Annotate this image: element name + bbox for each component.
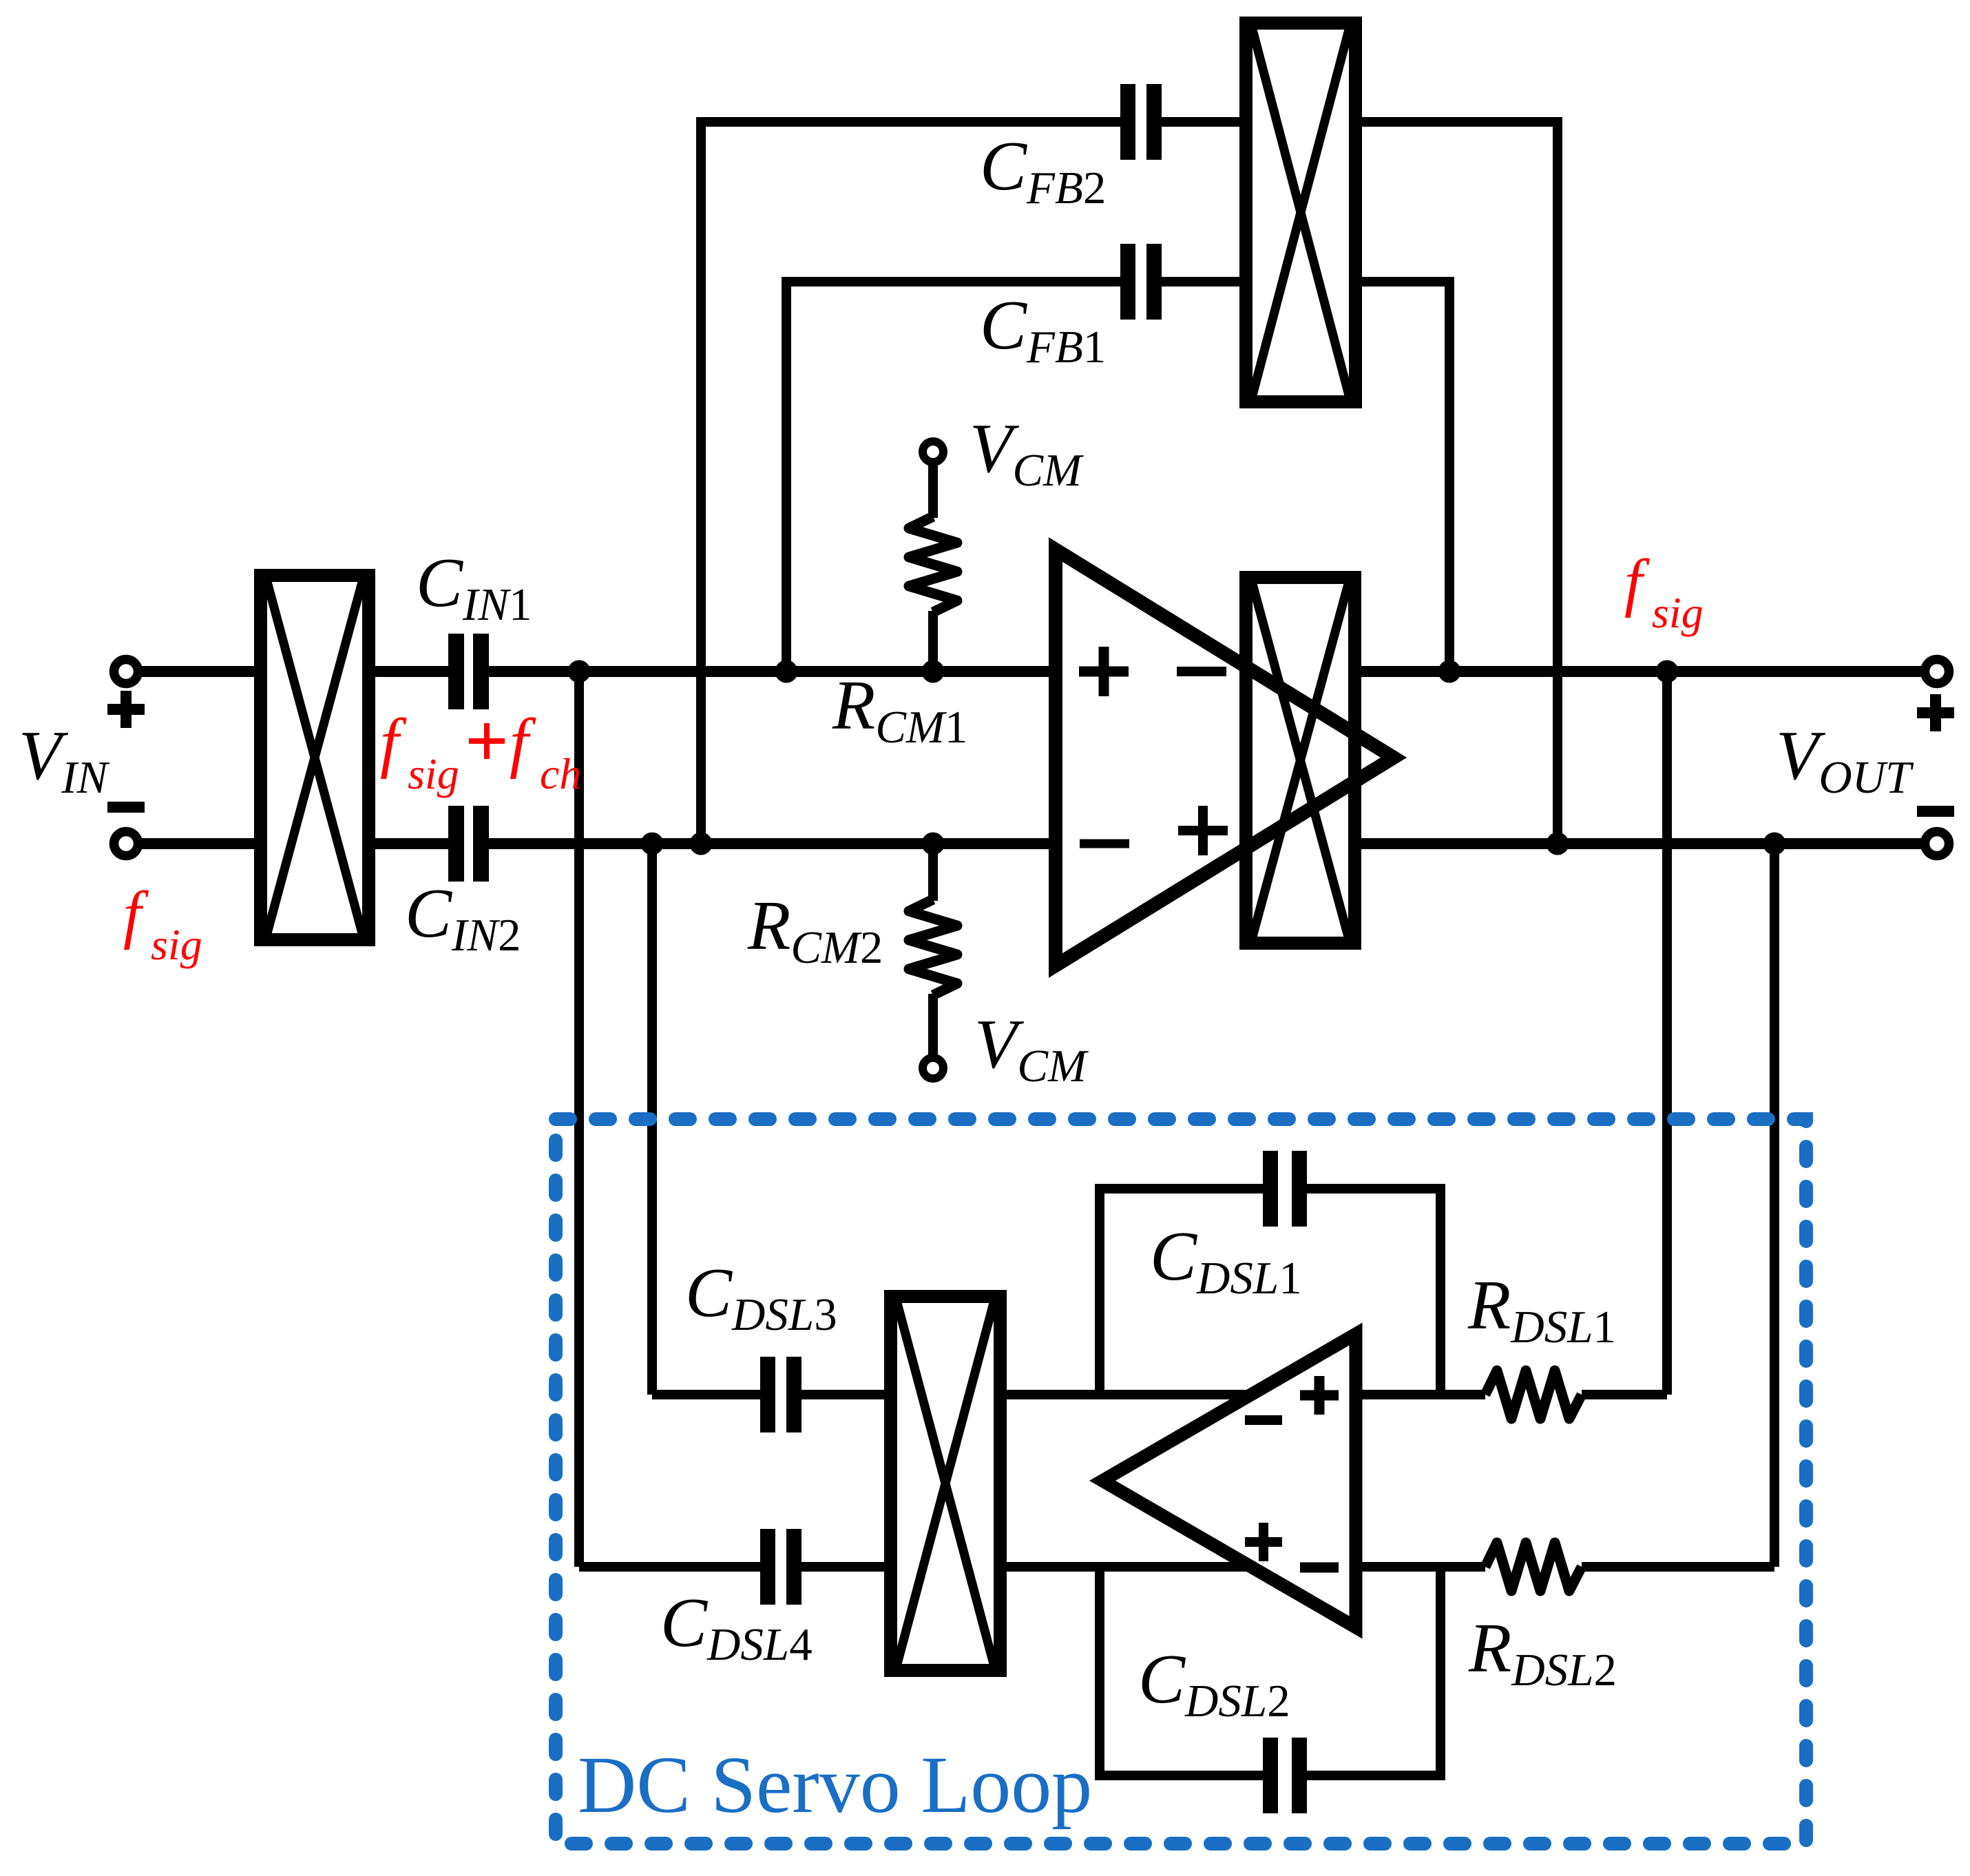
svg-text:VIN: VIN [19, 717, 110, 803]
svg-text:RDSL1: RDSL1 [1467, 1267, 1616, 1353]
svg-text:sig: sig [1652, 588, 1704, 637]
svg-text:CDSL1: CDSL1 [1150, 1218, 1302, 1304]
svg-text:RCM2: RCM2 [747, 887, 883, 973]
svg-text:CIN2: CIN2 [405, 875, 521, 961]
svg-text:RCM1: RCM1 [832, 667, 967, 753]
svg-text:ch: ch [540, 749, 581, 798]
svg-text:VOUT: VOUT [1776, 717, 1914, 803]
svg-text:CIN1: CIN1 [416, 544, 532, 630]
svg-text:f: f [123, 879, 149, 950]
svg-text:VCM: VCM [970, 410, 1084, 496]
svg-text:CDSL2: CDSL2 [1138, 1640, 1290, 1727]
svg-text:CFB2: CFB2 [980, 127, 1106, 213]
svg-text:sig: sig [408, 749, 459, 798]
svg-text:CFB1: CFB1 [980, 286, 1106, 373]
svg-text:DC Servo Loop: DC Servo Loop [578, 1740, 1092, 1830]
svg-text:sig: sig [151, 920, 202, 969]
svg-text:f: f [1624, 547, 1650, 618]
svg-text:f: f [510, 705, 536, 780]
svg-text:VCM: VCM [974, 1005, 1089, 1092]
svg-text:CDSL3: CDSL3 [685, 1254, 837, 1340]
svg-text:RDSL2: RDSL2 [1468, 1609, 1617, 1696]
svg-text:f: f [380, 705, 407, 780]
